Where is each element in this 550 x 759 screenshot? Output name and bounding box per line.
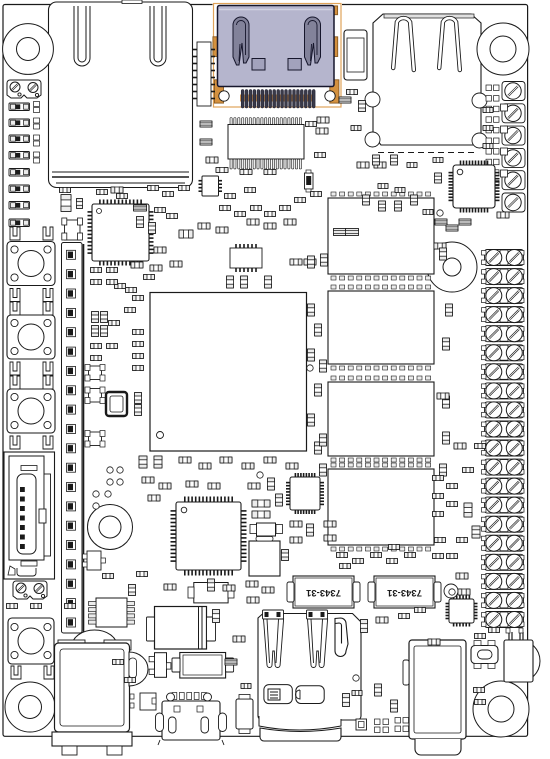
DRAM U8 — [328, 376, 434, 462]
capacitor C22 (square) — [249, 537, 280, 577]
push button SW1 — [7, 242, 55, 286]
IC U14 (SOT) — [83, 551, 106, 570]
ethernet PHY U2 — [88, 200, 154, 266]
component D2 — [188, 583, 234, 603]
DRAM U6 — [328, 192, 434, 280]
SW1 clips — [10, 289, 53, 302]
push button SW3 — [7, 389, 55, 433]
transistor Q1 above J6 — [62, 218, 83, 240]
SW2 clips — [10, 362, 53, 375]
push switch SW5 — [471, 641, 498, 669]
USB-A dual connector J3 — [365, 14, 487, 153]
connector CON1 (left edge) — [4, 452, 55, 579]
ethernet RJ45 jack J1 — [49, 0, 193, 188]
SW2 clips top — [10, 302, 53, 315]
push button SW2 — [7, 315, 55, 359]
vias — [93, 210, 455, 681]
IC U12 (QFN) — [446, 596, 478, 627]
mounting hole top-right — [477, 23, 529, 75]
svg-text:7343-31: 7343-31 — [386, 587, 422, 598]
SoC U1 (BGA) — [150, 293, 307, 452]
IC U13 (SOIC-8) — [89, 598, 135, 627]
push button SW4 — [8, 618, 54, 664]
micro-SD card slot J9 — [258, 610, 361, 741]
capacitor C near J6 top — [61, 195, 83, 212]
solder pads near audio jack — [356, 718, 409, 733]
transistor Q4 — [130, 693, 156, 710]
transistor Q11 (SOT-23) — [85, 387, 105, 404]
tantalum capacitor C10 7343-31 — [287, 576, 360, 608]
micro-USB connector J8 — [156, 693, 227, 746]
IC U17 — [193, 42, 215, 106]
DC barrel jack J7 — [52, 630, 148, 755]
J4 solder pads — [486, 85, 499, 186]
SW1 clips top — [10, 227, 53, 240]
IC U5 (QFN) — [449, 161, 500, 213]
DRAM U7 — [328, 285, 434, 370]
via ring — [444, 584, 458, 598]
mounting hole mid-right — [427, 242, 477, 292]
SW4 clips — [11, 666, 54, 679]
capacitor C20 — [252, 500, 270, 507]
pads right column — [501, 104, 508, 177]
inductor L3 — [250, 523, 283, 536]
IC U4 small — [199, 176, 223, 196]
inductor L1 — [172, 653, 234, 679]
mounting hole mid-left — [88, 505, 133, 550]
HDMI connector J2 (highlighted) — [213, 3, 343, 108]
mounting hole bottom-right — [473, 681, 529, 737]
capacitor C near USB — [344, 30, 367, 80]
IC U10 (QFP) — [171, 497, 247, 576]
capacitor pairs left column — [34, 102, 40, 164]
scattered passive components — [7, 90, 510, 713]
HDMI level shifter U3 — [228, 118, 304, 170]
tantalum capacitor C11 7343-31 — [368, 576, 441, 608]
transistor Q12 (SOT-23) — [85, 431, 105, 448]
pin header J6 (left, 20-pin) — [62, 243, 84, 634]
transistor Q2 — [305, 170, 314, 192]
resistor column R1-R8 — [9, 103, 30, 227]
capacitor C21 — [252, 511, 270, 518]
DRAM U9 — [328, 463, 434, 551]
transistor Q10 (SOT-23) — [85, 365, 105, 382]
audio jack J10 — [403, 640, 466, 755]
mounting hole top-left — [3, 24, 54, 75]
regulator Q3 (SOT-89) — [149, 653, 171, 678]
screw terminal block J4 (6-pin) — [502, 82, 525, 213]
GPIO screw terminal block J5 (2x20) — [482, 250, 525, 628]
IC U15 — [230, 244, 262, 272]
crystal Y1 — [106, 392, 127, 416]
IC U11 (QFN) — [286, 473, 324, 514]
SW3 clips — [10, 436, 53, 449]
svg-text:7343-31: 7343-31 — [305, 587, 341, 598]
diode D1 — [147, 607, 216, 650]
mounting hole bottom-left — [5, 682, 55, 732]
jumper pads P2 below CON1 — [13, 581, 47, 599]
SW3 clips top — [10, 376, 53, 389]
jumper pads P1 top-left — [7, 80, 41, 98]
IR receiver U16 — [504, 628, 540, 682]
inductor L2 — [236, 695, 253, 734]
